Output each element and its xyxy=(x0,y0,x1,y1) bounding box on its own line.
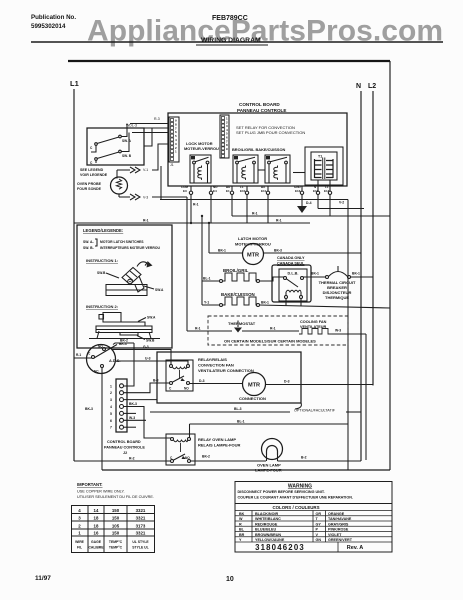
svg-text:3321: 3321 xyxy=(136,516,146,521)
svg-text:W-3: W-3 xyxy=(335,329,341,333)
svg-text:FIL: FIL xyxy=(77,546,82,550)
svg-text:BK-1: BK-1 xyxy=(352,272,360,276)
wire J2 pin7 xyxy=(124,426,137,428)
svg-text:C: C xyxy=(90,146,93,150)
svg-text:E10: E10 xyxy=(240,189,246,193)
relay K2 broil (on board) xyxy=(232,147,286,183)
connector J1 xyxy=(169,117,179,167)
svg-text:FOUR SONDE: FOUR SONDE xyxy=(77,187,102,191)
wire J2 pin2 to fan relay C xyxy=(124,383,170,393)
svg-text:R-1: R-1 xyxy=(252,212,258,216)
svg-text:BK: BK xyxy=(239,512,245,516)
svg-text:BL: BL xyxy=(239,528,245,532)
svg-text:1: 1 xyxy=(78,531,81,536)
wire board return to lamp relay riser xyxy=(160,166,348,470)
svg-text:LATCH MOTOR: LATCH MOTOR xyxy=(238,236,267,241)
svg-text:G-3: G-3 xyxy=(143,345,149,349)
svg-text:B-2: B-2 xyxy=(301,456,307,460)
bake element R bake xyxy=(202,297,390,308)
svg-text:18: 18 xyxy=(94,516,99,521)
board terminal COM E3 xyxy=(181,185,193,195)
wire conv motor to L2 xyxy=(266,385,374,386)
svg-text:E14: E14 xyxy=(324,189,330,193)
svg-text:BK-1: BK-1 xyxy=(311,272,319,276)
wire latch motor to N xyxy=(264,252,362,254)
svg-text:R-3: R-3 xyxy=(154,117,160,121)
svg-text:R-1: R-1 xyxy=(193,203,199,207)
broil element R broil xyxy=(202,273,284,283)
svg-text:GY: GY xyxy=(316,522,322,526)
wire N E12 down xyxy=(317,195,319,209)
svg-text:W: W xyxy=(239,517,243,521)
wire J2 pin4 BK-3 to lamp relay coil xyxy=(124,407,171,439)
svg-text:Rev. A: Rev. A xyxy=(347,545,364,551)
thermostat dashed box xyxy=(187,316,366,345)
svg-text:CONVECTION FAN: CONVECTION FAN xyxy=(198,363,234,368)
svg-text:WIRE: WIRE xyxy=(75,540,85,544)
svg-text:TAN/HAVANE: TAN/HAVANE xyxy=(328,517,352,521)
svg-text:NO: NO xyxy=(185,456,190,460)
svg-text:UTILISER SEULEMENT DU FIL DE C: UTILISER SEULEMENT DU FIL DE CUIVRE. xyxy=(77,495,154,499)
svg-text:BK-1: BK-1 xyxy=(218,249,226,253)
svg-text:C: C xyxy=(169,387,172,391)
svg-text:SW. B-: SW. B- xyxy=(83,246,94,250)
svg-text:4: 4 xyxy=(78,508,81,513)
svg-text:BK-2: BK-2 xyxy=(202,455,210,459)
svg-text:R-2: R-2 xyxy=(129,457,135,461)
relay D.L.B. xyxy=(272,265,311,306)
svg-text:LEGEND/LEGENDE:: LEGEND/LEGENDE: xyxy=(83,228,123,233)
svg-text:BL-1: BL-1 xyxy=(203,277,211,281)
svg-text:U-3: U-3 xyxy=(145,357,151,361)
canada only note xyxy=(277,256,305,266)
svg-text:OVEN PROBE: OVEN PROBE xyxy=(77,182,102,186)
svg-text:E12: E12 xyxy=(313,189,319,193)
svg-text:SW. B: SW. B xyxy=(122,154,132,158)
svg-text:SW.A: SW.A xyxy=(155,288,164,292)
svg-text:CANADA ONLY: CANADA ONLY xyxy=(277,256,305,260)
svg-text:P: P xyxy=(316,528,319,532)
svg-text:B-3: B-3 xyxy=(153,379,159,383)
wire ADS NC down xyxy=(101,368,103,471)
svg-text:3: 3 xyxy=(78,516,81,521)
colors table xyxy=(235,504,392,543)
wire L1 E10 down xyxy=(246,195,248,224)
schematic frame bottom xyxy=(102,469,390,471)
thermal circuit breaker CB1 xyxy=(304,266,374,300)
svg-text:5: 5 xyxy=(110,412,112,416)
legend illustration 2 xyxy=(89,313,160,347)
svg-text:SW.A: SW.A xyxy=(147,316,156,320)
svg-text:1: 1 xyxy=(175,150,177,154)
svg-text:COLORS / COULEURS: COLORS / COULEURS xyxy=(272,505,319,510)
wire V-3 riser to thermostat xyxy=(186,197,188,331)
svg-text:N: N xyxy=(356,83,361,90)
svg-text:BR: BR xyxy=(239,533,245,537)
svg-text:11/97: 11/97 xyxy=(35,575,51,582)
svg-text:W-3: W-3 xyxy=(129,416,135,420)
svg-text:BLACK/NOIR: BLACK/NOIR xyxy=(255,512,278,516)
wire V-2 to N xyxy=(318,208,364,210)
svg-text:R-1: R-1 xyxy=(276,219,282,223)
wire BL-1 from lamp relay coil to riser xyxy=(190,424,349,438)
oven lamp DS1 xyxy=(262,439,283,462)
svg-text:BK-3: BK-3 xyxy=(85,407,93,411)
board terminal GND E13 xyxy=(294,185,304,195)
svg-text:BK-1: BK-1 xyxy=(261,301,269,305)
board terminal L1 E10 xyxy=(240,185,249,195)
svg-text:COOLING FAN: COOLING FAN xyxy=(300,320,327,324)
svg-text:GREEN/VERT: GREEN/VERT xyxy=(328,538,353,542)
header rule xyxy=(31,41,443,43)
svg-text:6: 6 xyxy=(110,419,112,423)
wire L1 E14 down xyxy=(329,195,331,217)
svg-text:BL-1: BL-1 xyxy=(237,420,245,424)
svg-text:T1: T1 xyxy=(318,155,322,159)
svg-text:105: 105 xyxy=(112,524,120,529)
svg-text:2: 2 xyxy=(110,391,112,395)
svg-text:ORANGE: ORANGE xyxy=(328,512,345,516)
svg-text:BLUE/BLEU: BLUE/BLEU xyxy=(255,528,276,532)
wire to latch motor left xyxy=(209,252,243,254)
svg-text:UL STYLE: UL STYLE xyxy=(132,540,149,544)
svg-text:BROWN/BRUN: BROWN/BRUN xyxy=(255,533,281,537)
board terminal NO E4 xyxy=(209,185,218,195)
svg-text:WHITE/BLANC: WHITE/BLANC xyxy=(255,517,281,521)
oven probe RT1 xyxy=(111,170,128,197)
svg-text:OR: OR xyxy=(316,512,322,516)
svg-text:E3: E3 xyxy=(183,189,187,193)
svg-text:MTR: MTR xyxy=(248,383,260,389)
svg-text:WARNING: WARNING xyxy=(288,484,312,490)
svg-text:SW.B: SW.B xyxy=(146,339,155,343)
svg-text:V-3: V-3 xyxy=(143,196,148,200)
svg-text:3173: 3173 xyxy=(136,524,146,529)
plug V-3 xyxy=(119,194,187,200)
svg-text:OPTIONAL/FACULTATIF: OPTIONAL/FACULTATIF xyxy=(294,409,336,413)
svg-text:THERMIQUE: THERMIQUE xyxy=(325,295,349,300)
wire ADS NO / BK-2 xyxy=(113,343,134,345)
relay K5 convection fan xyxy=(166,360,193,391)
wire BR E1 down xyxy=(231,195,233,217)
svg-text:3321: 3321 xyxy=(136,508,146,513)
svg-text:L1: L1 xyxy=(70,79,79,88)
svg-text:SEE LEGEND: SEE LEGEND xyxy=(80,168,104,172)
wire L1 to lamp relay C xyxy=(74,460,171,462)
svg-text:VENTILATEUR CONNECTION: VENTILATEUR CONNECTION xyxy=(198,368,254,373)
wire relay K2 to K3 xyxy=(258,169,265,171)
part number 318046203 xyxy=(255,542,363,552)
svg-text:ON CERTAIN MODELS/SUR CERTAIN: ON CERTAIN MODELS/SUR CERTAIN MODELES xyxy=(224,339,316,344)
svg-text:R-1: R-1 xyxy=(195,327,201,331)
svg-text:MOTOR LATCH SWITCHES: MOTOR LATCH SWITCHES xyxy=(100,240,144,244)
svg-text:D-3: D-3 xyxy=(284,380,290,384)
svg-text:SW. A-: SW. A- xyxy=(83,240,94,244)
svg-text:T: T xyxy=(316,517,319,521)
svg-text:VOIR LEGENDE: VOIR LEGENDE xyxy=(80,173,108,177)
svg-text:NC: NC xyxy=(94,370,99,374)
wire bus to elements xyxy=(201,216,203,305)
svg-text:R-1: R-1 xyxy=(76,353,81,357)
svg-text:PANNEAU CONTROLE: PANNEAU CONTROLE xyxy=(104,446,145,450)
board terminal BA E11 xyxy=(261,185,270,195)
svg-text:SW. A: SW. A xyxy=(122,139,132,143)
svg-text:16: 16 xyxy=(94,531,99,536)
wire BL-3 xyxy=(150,411,290,413)
svg-text:E4: E4 xyxy=(213,189,217,193)
svg-text:7: 7 xyxy=(110,426,112,430)
svg-text:RELAIS LAMPE-FOUR: RELAIS LAMPE-FOUR xyxy=(198,443,241,448)
svg-text:D.L.B.: D.L.B. xyxy=(288,272,299,276)
svg-text:TEMP°C: TEMP°C xyxy=(109,546,123,550)
convection motor M2 xyxy=(243,373,266,396)
svg-text:9: 9 xyxy=(226,147,228,151)
svg-text:RED/ROUGE: RED/ROUGE xyxy=(255,522,278,526)
convection box xyxy=(157,352,301,403)
svg-text:BAKE/CUISSON: BAKE/CUISSON xyxy=(221,292,255,297)
svg-text:YELLOW/JAUNE: YELLOW/JAUNE xyxy=(255,538,285,542)
svg-text:GN: GN xyxy=(316,538,322,542)
wire J2 pin3 xyxy=(124,399,158,401)
wire ADS G-3 to fan relay coil xyxy=(112,350,171,365)
svg-text:COUPER LE COURANT AVANT D'EFFE: COUPER LE COURANT AVANT D'EFFECTUER UNE … xyxy=(238,496,353,500)
relay K3 bake (on board) xyxy=(265,155,290,183)
svg-text:V-1: V-1 xyxy=(143,168,148,172)
warning box xyxy=(235,482,392,553)
svg-text:Publication No.: Publication No. xyxy=(31,14,76,21)
plug V-1 xyxy=(117,144,169,173)
optional note xyxy=(295,403,301,409)
svg-text:USE COPPER WIRE ONLY.: USE COPPER WIRE ONLY. xyxy=(77,490,125,494)
wire L2 vertical xyxy=(372,91,374,385)
svg-text:2: 2 xyxy=(78,524,81,529)
board terminal BR E1 xyxy=(226,185,234,195)
latch switch box WDL xyxy=(87,117,160,165)
board terminal N E12 xyxy=(313,185,320,195)
svg-text:BK-3: BK-3 xyxy=(274,249,282,253)
wire cooling fan to lamp line xyxy=(365,334,367,460)
svg-text:THERMOSTAT: THERMOSTAT xyxy=(228,321,256,326)
control board U1 outline xyxy=(168,113,347,186)
svg-text:LAMPE-FOUR: LAMPE-FOUR xyxy=(255,468,282,473)
wire fan relay NO to conv motor xyxy=(190,383,243,385)
wire oven lamp to N xyxy=(278,460,362,462)
svg-text:C: C xyxy=(88,352,91,356)
svg-text:10: 10 xyxy=(226,576,234,583)
schematic frame right xyxy=(389,61,391,470)
svg-text:PINK/ROSE: PINK/ROSE xyxy=(328,528,349,532)
svg-text:CONTROL BOARD: CONTROL BOARD xyxy=(239,102,280,107)
svg-text:150: 150 xyxy=(112,516,120,521)
svg-text:V-2: V-2 xyxy=(339,201,344,205)
svg-text:18: 18 xyxy=(94,524,99,529)
svg-text:BK-3: BK-3 xyxy=(129,402,137,406)
svg-text:E1: E1 xyxy=(226,189,230,193)
svg-text:BL-3: BL-3 xyxy=(234,407,242,411)
svg-text:R-1: R-1 xyxy=(143,219,149,223)
thermostat TH1 xyxy=(187,330,232,332)
svg-text:150: 150 xyxy=(112,508,120,513)
svg-text:INSTRUCTION 2:: INSTRUCTION 2: xyxy=(86,304,118,309)
svg-text:INTERRUPTEURS MOTEUR VERROU: INTERRUPTEURS MOTEUR VERROU xyxy=(100,246,160,250)
svg-text:D-4: D-4 xyxy=(306,201,312,205)
relay K6 oven lamp xyxy=(166,434,195,465)
latch motor M1 xyxy=(243,244,264,265)
svg-text:E13: E13 xyxy=(295,189,301,193)
wire J2 pin6 xyxy=(124,419,147,421)
svg-text:MOTEUR-VERROU: MOTEUR-VERROU xyxy=(184,146,219,151)
svg-text:D-3: D-3 xyxy=(199,379,205,383)
svg-text:CALIBRE: CALIBRE xyxy=(88,546,104,550)
wire L1 vertical xyxy=(73,89,75,461)
svg-text:FEB789CC: FEB789CC xyxy=(212,15,248,22)
svg-text:NO: NO xyxy=(98,345,103,349)
svg-text:14: 14 xyxy=(94,508,99,513)
svg-text:IMPORTANT:: IMPORTANT: xyxy=(77,482,103,487)
wire ADS U-3 to fan relay coil right xyxy=(116,361,188,365)
svg-text:PANNEAU CONTROLE: PANNEAU CONTROLE xyxy=(237,108,286,113)
svg-text:V: V xyxy=(316,533,319,537)
svg-text:WDL-3: WDL-3 xyxy=(126,124,137,128)
svg-text:318046203: 318046203 xyxy=(255,543,305,552)
svg-text:BK-2: BK-2 xyxy=(120,339,128,343)
svg-text:BROIL/GRIL: BROIL/GRIL xyxy=(223,268,249,273)
wire COM E3 to bus xyxy=(190,195,192,224)
wire N vertical xyxy=(360,91,362,461)
svg-text:DISCONNECT POWER BEFORE SERVIC: DISCONNECT POWER BEFORE SERVICING UNIT. xyxy=(238,490,325,494)
wire L1 to ADS xyxy=(74,357,92,359)
wire J2 pin5 xyxy=(124,412,137,414)
wires switch box to J1 xyxy=(120,124,169,133)
svg-text:RELAY OVEN LAMP: RELAY OVEN LAMP xyxy=(198,437,236,442)
legend illustration 1 xyxy=(97,261,164,296)
svg-text:5995302014: 5995302014 xyxy=(31,23,66,30)
svg-text:NO: NO xyxy=(184,387,189,391)
svg-text:3321: 3321 xyxy=(136,531,146,536)
svg-text:GRAY/GRIS: GRAY/GRIS xyxy=(328,522,349,526)
wire R-1 bus xyxy=(74,222,310,224)
wire BK-2 riser to P2 pin1 xyxy=(123,343,134,386)
wire BA E11 down xyxy=(267,195,269,224)
svg-text:SET PLUG JMB POUR CONVECTION: SET PLUG JMB POUR CONVECTION xyxy=(236,130,305,135)
svg-text:GAGE: GAGE xyxy=(91,540,102,544)
svg-text:J1: J1 xyxy=(170,163,174,167)
svg-text:R: R xyxy=(239,522,242,526)
board terminal L1 E14 xyxy=(324,185,332,195)
svg-text:WIRING DIAGRAM: WIRING DIAGRAM xyxy=(201,37,261,44)
svg-text:Y-1: Y-1 xyxy=(204,301,209,305)
oven door switch A.D.S. xyxy=(87,345,121,374)
svg-text:SW.B: SW.B xyxy=(97,271,106,275)
svg-text:1: 1 xyxy=(110,384,112,388)
svg-text:4: 4 xyxy=(110,405,112,409)
wire R-1 mid xyxy=(232,215,390,217)
svg-text:3: 3 xyxy=(110,398,112,402)
svg-text:INSTRUCTION 1:: INSTRUCTION 1: xyxy=(86,258,118,263)
svg-text:VIOLET: VIOLET xyxy=(328,533,342,537)
connector J2 lower xyxy=(110,379,127,432)
transformer T1 xyxy=(293,147,343,186)
svg-text:BROIL/GRIL BAKE/CUISSON: BROIL/GRIL BAKE/CUISSON xyxy=(232,147,286,152)
svg-text:L2: L2 xyxy=(368,83,376,90)
svg-text:TEMP°C: TEMP°C xyxy=(109,540,123,544)
svg-text:CONNECTION: CONNECTION xyxy=(239,396,266,401)
wire gauge table xyxy=(72,506,155,553)
connector P7 on board xyxy=(220,115,229,158)
svg-text:MTR: MTR xyxy=(247,253,259,259)
svg-text:150: 150 xyxy=(112,531,120,536)
wire lamp relay NO to oven lamp xyxy=(191,460,267,462)
cooling fan R fan xyxy=(299,329,332,335)
svg-text:RELAY/RELAIS: RELAY/RELAIS xyxy=(198,357,227,362)
wire bus to latch motor xyxy=(208,223,210,253)
schematic frame top xyxy=(68,60,390,62)
svg-text:R-1: R-1 xyxy=(270,327,276,331)
svg-text:E11: E11 xyxy=(261,189,267,193)
svg-text:STYLE UL: STYLE UL xyxy=(132,546,148,550)
wire NO E4 down xyxy=(210,195,212,224)
ground symbol D-4 xyxy=(297,195,312,214)
legend box xyxy=(77,225,172,348)
svg-text:J2: J2 xyxy=(123,451,127,455)
svg-text:CONTROL BOARD: CONTROL BOARD xyxy=(107,440,141,444)
relay K4 lock motor (on board) xyxy=(184,141,219,183)
